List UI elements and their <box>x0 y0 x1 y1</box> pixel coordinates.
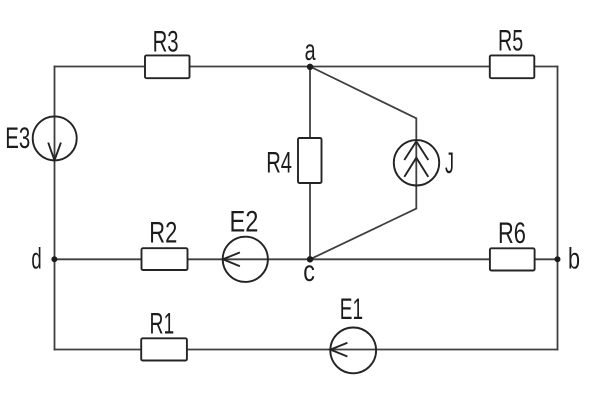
voltage source E3 <box>33 116 77 160</box>
resistor R4 <box>298 138 322 183</box>
wire bottom row <box>55 349 558 351</box>
voltage source E2 <box>223 237 268 282</box>
wire top (a to left and right rails) <box>55 66 558 68</box>
svg-text:R2: R2 <box>149 217 177 250</box>
svg-text:R1: R1 <box>150 307 175 340</box>
svg-text:a: a <box>305 34 316 67</box>
svg-text:E1: E1 <box>340 293 363 326</box>
svg-text:R6: R6 <box>498 217 526 250</box>
node c <box>307 256 313 262</box>
node b <box>555 256 561 262</box>
wire left rail <box>54 67 56 350</box>
resistor R6 <box>490 248 535 270</box>
svg-text:R5: R5 <box>498 25 523 58</box>
svg-text:J: J <box>445 147 454 180</box>
wire J branch a to c <box>310 67 416 260</box>
resistor R3 <box>145 55 190 78</box>
svg-text:R4: R4 <box>266 147 292 180</box>
resistor R1 <box>141 338 187 360</box>
current source J <box>394 140 439 185</box>
resistor R5 <box>490 55 535 78</box>
svg-text:E3: E3 <box>5 122 30 155</box>
wire R4 branch a-c <box>309 67 311 260</box>
wire middle row d-c-b <box>55 258 558 260</box>
svg-text:b: b <box>568 243 580 276</box>
svg-text:c: c <box>303 255 315 288</box>
node a <box>307 64 313 70</box>
svg-text:d: d <box>31 243 41 276</box>
svg-text:E2: E2 <box>230 206 259 239</box>
voltage source E1 <box>330 328 376 374</box>
node d <box>51 256 57 262</box>
svg-text:R3: R3 <box>153 26 179 59</box>
wire right rail <box>557 67 559 350</box>
resistor R2 <box>142 248 188 270</box>
